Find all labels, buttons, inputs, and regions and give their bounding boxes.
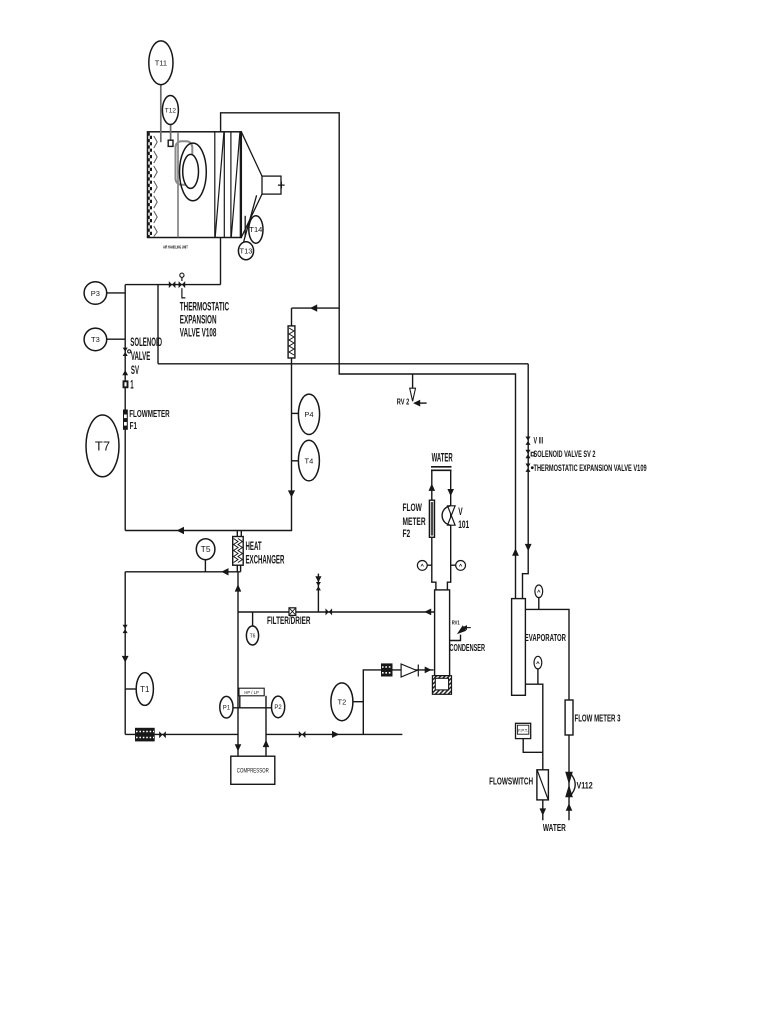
svg-text:P4: P4: [304, 410, 313, 419]
svg-text:F1: F1: [130, 419, 137, 431]
svg-text:AIR HANDLING UNIT: AIR HANDLING UNIT: [163, 245, 188, 250]
svg-text:T5: T5: [201, 544, 211, 554]
svg-text:T13: T13: [240, 247, 253, 256]
svg-text:COMPRESSOR: COMPRESSOR: [237, 768, 269, 775]
svg-text:HP / LP: HP / LP: [244, 690, 259, 695]
svg-text:101: 101: [458, 518, 469, 530]
svg-text:T12: T12: [165, 108, 177, 115]
svg-text:WATER: WATER: [543, 822, 566, 834]
svg-text:T11: T11: [155, 59, 167, 68]
svg-text:WATER: WATER: [432, 452, 453, 465]
svg-text:FILTER/DRIER: FILTER/DRIER: [267, 614, 311, 626]
svg-text:SV: SV: [131, 364, 140, 376]
svg-text:FLOW METER 3: FLOW METER 3: [575, 712, 621, 724]
svg-text:EVAPORATOR: EVAPORATOR: [525, 631, 566, 643]
svg-text:T14: T14: [249, 225, 262, 234]
svg-text:P3: P3: [91, 289, 100, 298]
svg-text:T2: T2: [338, 698, 347, 707]
svg-text:THERMOSTATIC EXPANSION VALVE: THERMOSTATIC EXPANSION VALVE V109: [534, 463, 647, 474]
svg-text:FLOWMETER: FLOWMETER: [129, 407, 170, 419]
svg-text:FLOWSWITCH: FLOWSWITCH: [489, 775, 533, 787]
svg-text:RV1: RV1: [452, 620, 460, 627]
svg-text:T3: T3: [91, 335, 100, 344]
svg-text:V III: V III: [534, 435, 544, 446]
svg-text:P2: P2: [274, 705, 282, 711]
svg-text:P1: P1: [223, 706, 231, 712]
svg-text:T7: T7: [95, 439, 110, 454]
svg-text:THERMOSTATIC: THERMOSTATIC: [180, 301, 229, 313]
svg-text:T6: T6: [250, 634, 256, 640]
svg-text:CONDENSER: CONDENSER: [450, 641, 486, 653]
svg-text:V: V: [458, 505, 462, 517]
svg-text:EXCHANGER: EXCHANGER: [246, 554, 285, 566]
svg-text:VALVE: VALVE: [131, 350, 150, 362]
svg-text:FLOW: FLOW: [403, 501, 423, 513]
svg-text:T1: T1: [140, 685, 150, 694]
svg-text:V112: V112: [577, 781, 594, 791]
svg-text:EXPANSION: EXPANSION: [180, 313, 217, 325]
svg-text:F.P.T.: F.P.T.: [518, 728, 528, 733]
svg-text:HEAT: HEAT: [246, 540, 262, 552]
svg-text:SOLENOID: SOLENOID: [130, 336, 162, 348]
svg-text:RV 2: RV 2: [397, 399, 410, 407]
svg-text:F2: F2: [403, 527, 411, 539]
svg-text:SOLENOID VALVE SV 2: SOLENOID VALVE SV 2: [534, 449, 596, 460]
svg-text:1: 1: [130, 379, 133, 391]
svg-text:METER: METER: [403, 515, 426, 527]
svg-text:T4: T4: [305, 456, 314, 465]
svg-text:VALVE V108: VALVE V108: [180, 327, 217, 339]
